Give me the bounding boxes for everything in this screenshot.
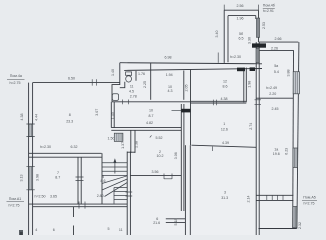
svg-text:1.94: 1.94 bbox=[166, 73, 173, 77]
porch hatch ticks right-bottom bbox=[267, 195, 283, 200]
svg-text:4.44: 4.44 bbox=[34, 114, 38, 121]
ticks bottom-left wall bbox=[79, 202, 85, 209]
svg-text:23.3: 23.3 bbox=[66, 119, 73, 123]
svg-text:5: 5 bbox=[108, 227, 110, 231]
room2 bottom wall y176.2 bbox=[130, 174, 181, 176]
underline pomA1 bbox=[7, 201, 25, 203]
svg-text:1.50: 1.50 bbox=[108, 136, 115, 140]
svg-text:4: 4 bbox=[35, 228, 37, 232]
window right wall lower bbox=[293, 207, 297, 228]
stair arrow head bbox=[113, 158, 116, 163]
window left wall lower bbox=[29, 167, 33, 190]
wall y145.7 bbox=[192, 145, 257, 147]
spine wall line2 x259.2 bbox=[258, 42, 260, 235]
top-left wall y82.6 bbox=[33, 82, 120, 84]
hatched column near stairs bbox=[114, 133, 123, 141]
svg-text:6.5: 6.5 bbox=[239, 36, 244, 40]
svg-text:4.38: 4.38 bbox=[221, 97, 228, 101]
ticks stair bottom wall bbox=[126, 192, 133, 196]
column hatch ticks bbox=[116, 133, 122, 141]
toilet bowl bbox=[126, 76, 132, 82]
svg-text:8: 8 bbox=[69, 113, 71, 117]
svg-text:31.3: 31.3 bbox=[221, 196, 228, 200]
bottom-left big wall double y204.1 bbox=[29, 203, 128, 205]
svg-text:Пом.А5: Пом.А5 bbox=[303, 195, 315, 199]
svg-text:1.38: 1.38 bbox=[135, 141, 139, 148]
svg-text:1: 1 bbox=[223, 122, 225, 126]
svg-text:8.7: 8.7 bbox=[55, 176, 60, 180]
svg-text:1.98: 1.98 bbox=[247, 81, 251, 88]
window hatch lines (parallel to wall) bbox=[30, 18, 297, 227]
bath bottom wall y101.8 bbox=[112, 101, 191, 103]
svg-text:4.5: 4.5 bbox=[129, 90, 134, 94]
mid-left wall double y153.3 bbox=[29, 152, 102, 154]
room9 bottom / room2 top double wall bbox=[111, 127, 181, 129]
svg-text:8.6: 8.6 bbox=[223, 85, 228, 89]
room5a bottom wall y94.2 bbox=[256, 97, 293, 99]
smudge near bottom-left wall bbox=[19, 230, 23, 235]
svg-text:6: 6 bbox=[53, 228, 55, 232]
svg-text:h=2.75: h=2.75 bbox=[303, 202, 314, 206]
svg-text:5а: 5а bbox=[274, 64, 278, 68]
toilet stall divider bbox=[135, 71, 137, 81]
ticks on bath bottom wall bbox=[123, 100, 129, 105]
door ticks room7 right wall bbox=[76, 177, 84, 181]
window spine wall top bbox=[256, 49, 259, 63]
svg-text:3.98: 3.98 bbox=[36, 174, 40, 181]
connector y152.2 bbox=[127, 151, 135, 153]
svg-text:3.06: 3.06 bbox=[174, 152, 178, 159]
sink bbox=[112, 94, 118, 101]
ticks above room5b corners bbox=[224, 5, 258, 11]
svg-text:Пом.4а: Пом.4а bbox=[10, 74, 22, 78]
stair right / room2 left wall double bbox=[126, 152, 128, 236]
tick on wall y146 bbox=[212, 147, 214, 152]
svg-text:4.82: 4.82 bbox=[146, 121, 153, 125]
svg-text:h=2.49: h=2.49 bbox=[266, 86, 277, 90]
svg-text:6.23: 6.23 bbox=[284, 148, 288, 155]
outer left wall line2 bbox=[32, 83, 34, 235]
svg-text:1.40: 1.40 bbox=[111, 112, 115, 119]
room9 left wall double bbox=[110, 102, 112, 128]
svg-text:21.6: 21.6 bbox=[153, 221, 160, 225]
svg-text:3.40: 3.40 bbox=[215, 31, 219, 38]
wall top-right y50.4 bbox=[259, 49, 294, 51]
svg-text:2.14: 2.14 bbox=[246, 195, 250, 202]
svg-text:2.05: 2.05 bbox=[185, 85, 189, 92]
svg-text:2.53: 2.53 bbox=[262, 22, 266, 29]
underline pom4a bbox=[7, 78, 25, 80]
svg-text:11: 11 bbox=[130, 85, 134, 89]
ticks on room1 top wall bbox=[213, 100, 216, 106]
room5b inner wall top bbox=[228, 15, 256, 17]
outer right wall line1 bbox=[297, 42, 299, 228]
underline pom4b bbox=[263, 7, 275, 9]
room2 upper-left wall stub double bbox=[130, 130, 132, 153]
room7 right wall double x78 bbox=[77, 157, 79, 204]
black seg on y42.1 wall bbox=[252, 43, 266, 47]
svg-text:2.66: 2.66 bbox=[275, 37, 282, 41]
black seg room5b bottom 2 bbox=[250, 67, 255, 71]
svg-text:6.32: 6.32 bbox=[71, 145, 78, 149]
svg-text:1.96: 1.96 bbox=[237, 17, 244, 21]
window room5b right wall bbox=[256, 18, 259, 37]
svg-text:2.20: 2.20 bbox=[269, 92, 276, 96]
svg-text:2.78: 2.78 bbox=[130, 94, 137, 98]
svg-text:3.65: 3.65 bbox=[50, 194, 57, 198]
svg-text:10.2: 10.2 bbox=[157, 154, 164, 158]
svg-text:1а: 1а bbox=[274, 147, 278, 151]
room3 left wall double bbox=[184, 145, 186, 235]
toilet tank bbox=[126, 72, 132, 75]
building footprint tint bbox=[33, 10, 299, 235]
svg-text:3: 3 bbox=[224, 190, 226, 194]
svg-text:5.52: 5.52 bbox=[156, 136, 163, 140]
svg-text:h=2.75: h=2.75 bbox=[9, 81, 20, 85]
svg-text:4.39: 4.39 bbox=[222, 141, 229, 145]
porch line y200.4 bbox=[256, 199, 293, 201]
room4-5 divider x73.5 with door gap bbox=[73, 207, 75, 217]
svg-text:3.30: 3.30 bbox=[247, 37, 251, 44]
svg-text:1.37: 1.37 bbox=[121, 142, 125, 149]
wall room5b left bbox=[223, 10, 225, 63]
svg-text:2.80: 2.80 bbox=[97, 194, 104, 198]
svg-text:10: 10 bbox=[149, 108, 153, 112]
spine wall line1 x256.2 bbox=[255, 42, 257, 235]
svg-text:h=2.75: h=2.75 bbox=[8, 204, 19, 208]
room12 bottom wall double bbox=[191, 100, 247, 102]
svg-text:3.88: 3.88 bbox=[287, 70, 291, 77]
black blob top of x179 wall bbox=[181, 109, 190, 113]
bathroom left wall with sink niche bbox=[112, 63, 120, 102]
svg-text:5.4: 5.4 bbox=[274, 70, 279, 74]
diagonal tick room2 bbox=[150, 135, 152, 137]
ticks left wall window ends bbox=[26, 124, 34, 190]
svg-text:8.7: 8.7 bbox=[149, 114, 154, 118]
svg-text:Пом.А1: Пом.А1 bbox=[9, 197, 21, 201]
window right wall middle bbox=[293, 148, 298, 168]
svg-text:2.32: 2.32 bbox=[298, 222, 302, 229]
column pair x244 bbox=[243, 68, 245, 103]
svg-text:12.6: 12.6 bbox=[221, 127, 228, 131]
stair treads lower bbox=[114, 188, 127, 200]
window left wall upper bbox=[29, 124, 33, 137]
svg-text:1.76: 1.76 bbox=[138, 72, 145, 76]
svg-text:2.56: 2.56 bbox=[237, 4, 244, 8]
svg-text:2.25: 2.25 bbox=[143, 81, 147, 88]
stair arrow bbox=[114, 161, 116, 174]
svg-text:2.26: 2.26 bbox=[271, 46, 278, 50]
room5b inner wall left bbox=[227, 16, 229, 63]
outer left wall line1 bbox=[28, 83, 30, 235]
svg-text:1.40: 1.40 bbox=[111, 69, 115, 76]
svg-text:8.6: 8.6 bbox=[101, 179, 106, 183]
room5b inner wall right bbox=[255, 16, 257, 19]
window right wall upper bbox=[293, 72, 299, 94]
svg-text:h=2.91: h=2.91 bbox=[263, 9, 274, 13]
outer right wall line2 bbox=[292, 50, 295, 228]
svg-text:6.50: 6.50 bbox=[68, 77, 75, 81]
wall x182 double bbox=[180, 104, 182, 211]
svg-text:11: 11 bbox=[119, 228, 123, 232]
outer top wall bbox=[120, 63, 262, 64]
black seg room5b bottom 1 bbox=[237, 68, 245, 72]
svg-text:19.6: 19.6 bbox=[273, 152, 280, 156]
toilet stall partition L bbox=[120, 82, 125, 88]
svg-text:5б: 5б bbox=[239, 32, 243, 36]
svg-text:3.56: 3.56 bbox=[152, 170, 159, 174]
underline pomA5 bbox=[302, 199, 317, 201]
svg-text:12: 12 bbox=[223, 80, 227, 84]
underlines for pom labels bbox=[7, 8, 318, 201]
svg-text:6.98: 6.98 bbox=[165, 56, 172, 60]
svg-text:h=2.50: h=2.50 bbox=[34, 194, 45, 198]
inner top line bbox=[124, 69, 262, 71]
wall room5b top bbox=[224, 9, 258, 11]
short line left of black blob bbox=[172, 109, 182, 111]
spine door ticks room5a bbox=[255, 100, 262, 105]
stair treads upper bbox=[102, 163, 127, 176]
door ticks top-left wall bbox=[92, 79, 96, 85]
dim tick x218 room5b bbox=[217, 53, 219, 63]
wall room10 right x183.8 bbox=[183, 71, 185, 100]
svg-text:5.18: 5.18 bbox=[174, 219, 178, 226]
stair stringer vertical bbox=[113, 188, 115, 204]
svg-text:7: 7 bbox=[57, 171, 59, 175]
svg-text:h=2.30: h=2.30 bbox=[230, 55, 241, 59]
svg-text:h=2.30: h=2.30 bbox=[40, 145, 51, 149]
svg-text:4.38: 4.38 bbox=[20, 114, 24, 121]
svg-text:2.74: 2.74 bbox=[249, 123, 253, 130]
right-bottom bottom wall y228.5 bbox=[259, 228, 297, 230]
svg-text:2.45: 2.45 bbox=[272, 107, 279, 111]
svg-text:Пом.4б: Пом.4б bbox=[263, 4, 275, 8]
door jamb marks room2 bottom bbox=[164, 174, 172, 180]
wall room12 left x189.5 bbox=[190, 70, 192, 146]
wall top-right y42.1 bbox=[259, 41, 298, 43]
svg-text:3.07: 3.07 bbox=[95, 109, 99, 116]
niche wall near room6 double y219 bbox=[166, 218, 186, 220]
stair left wall bbox=[101, 153, 103, 204]
svg-text:3.13: 3.13 bbox=[19, 175, 23, 182]
stair winder fan bbox=[102, 176, 127, 197]
wall room5b right bbox=[258, 10, 260, 42]
svg-text:4.3: 4.3 bbox=[168, 89, 173, 93]
wall room11-10 divider x150.7 bbox=[150, 63, 152, 100]
porch line y195.3 bbox=[256, 194, 293, 196]
